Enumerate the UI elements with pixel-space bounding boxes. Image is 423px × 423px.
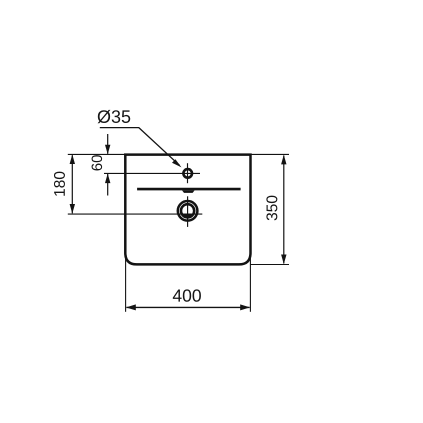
label Ø35 [98,110,131,123]
arrow 60 down [105,145,110,155]
label 400 [173,289,201,301]
label 180 [54,172,65,196]
drain centerline vertical [187,196,189,227]
leader line Ø35 [100,128,180,166]
bottom edge extension line right [251,264,290,266]
arrow 180 bottom [70,204,75,214]
overflow tick [182,190,195,193]
drain shadow segment [182,214,194,217]
top edge extension line right [251,153,290,155]
faucet hole Ø35 [183,169,192,178]
basin outline [125,155,250,265]
basin back edge line [137,188,241,191]
drain inner circle [181,204,194,217]
extension line 400 left [125,252,127,312]
arrow 400 left [126,304,136,310]
dimension line 60 upper [107,134,109,154]
drain centerline horizontal / 180 extension line [68,213,203,215]
arrow 180 top [70,154,75,164]
leader arrowhead [172,159,182,167]
dimension line 400 [126,306,249,308]
dimension line 180 [71,155,73,213]
faucet hole centerline horizontal [104,172,200,174]
top edge extension line left [68,153,125,155]
faucet hole centerline vertical [187,163,189,183]
drain outer circle [178,201,198,221]
arrow 400 right [240,304,250,310]
dimension line 350 [283,156,285,264]
label 350 [266,196,277,221]
arrow 60 up [105,174,110,184]
label 60 [92,155,103,170]
extension line 400 right [249,253,251,312]
arrow 350 top [281,155,286,165]
dimension line 60 lower [107,174,109,196]
arrow 350 bottom [281,255,286,265]
